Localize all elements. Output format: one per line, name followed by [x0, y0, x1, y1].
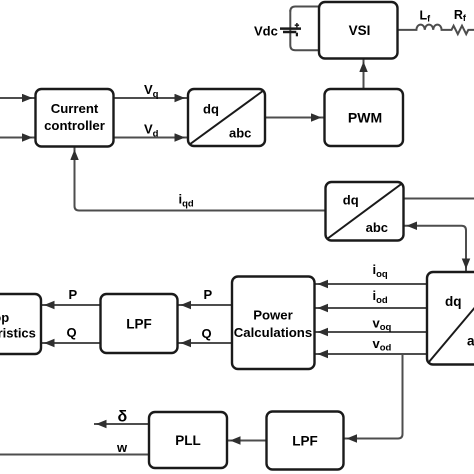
svg-text:iod: iod: [373, 288, 388, 306]
svg-text:controller: controller: [44, 118, 105, 133]
svg-text:PLL: PLL: [175, 433, 201, 448]
svg-text:abc: abc: [229, 125, 251, 140]
svg-text:Calculations: Calculations: [234, 325, 312, 340]
svg-text:P: P: [204, 287, 213, 302]
svg-text:PWM: PWM: [348, 110, 382, 126]
svg-text:Power: Power: [253, 308, 293, 323]
svg-text:LPF: LPF: [126, 317, 152, 332]
svg-text:ioq: ioq: [373, 262, 388, 280]
svg-text:abc: abc: [467, 334, 474, 349]
svg-text:vod: vod: [373, 336, 392, 354]
svg-text:δ: δ: [118, 409, 128, 426]
svg-text:VSI: VSI: [349, 23, 371, 38]
svg-text:P: P: [69, 287, 78, 302]
svg-text:Rf: Rf: [454, 8, 467, 23]
svg-text:Q: Q: [202, 326, 212, 341]
svg-text:dq: dq: [445, 294, 462, 309]
svg-text:LPF: LPF: [292, 434, 318, 449]
svg-text:Current: Current: [51, 101, 99, 116]
svg-text:voq: voq: [373, 315, 392, 333]
svg-text:dq: dq: [203, 101, 219, 116]
svg-text:iqd: iqd: [179, 192, 194, 210]
svg-text:w: w: [116, 440, 128, 455]
svg-text:abc: abc: [366, 220, 388, 235]
svg-text:Q: Q: [67, 325, 77, 340]
svg-text:Vd: Vd: [144, 122, 159, 140]
svg-text:Vdc: Vdc: [254, 24, 278, 39]
svg-text:Lf: Lf: [420, 9, 432, 24]
svg-text:dq: dq: [343, 193, 359, 208]
svg-text:Vq: Vq: [144, 82, 159, 100]
svg-text:characteristics: characteristics: [0, 326, 36, 341]
svg-text:Droop: Droop: [0, 310, 9, 325]
